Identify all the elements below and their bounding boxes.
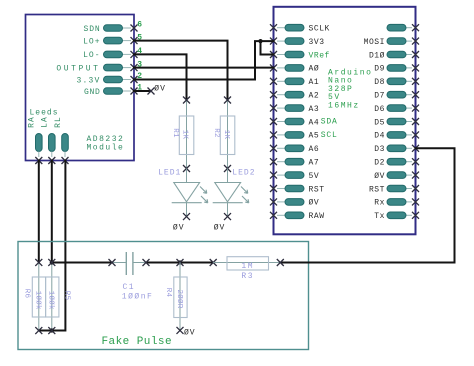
wire OUTPUT (pin3) to Arduino A0 [134, 67, 274, 69]
svg-text:R3: R3 [241, 272, 254, 281]
svg-text:ØV: ØV [309, 199, 320, 208]
svg-text:RST: RST [369, 185, 385, 194]
ground 0V at LED2 [224, 213, 231, 220]
Arduino left pin AØ [277, 67, 285, 69]
Arduino left pin RAW [277, 214, 285, 216]
svg-text:SCL: SCL [321, 131, 338, 140]
Arduino right pin D8 [406, 80, 412, 82]
svg-text:1K: 1K [222, 130, 230, 140]
svg-text:5V: 5V [309, 172, 320, 181]
wire C1 to R3 via R4 junction [146, 262, 213, 264]
Arduino right pin D9 [406, 67, 412, 69]
svg-text:D2: D2 [374, 159, 385, 168]
Arduino right pin D5 [406, 121, 412, 123]
svg-text:R4: R4 [164, 288, 172, 298]
svg-text:RA: RA [28, 116, 37, 128]
resistor R5 100k [51, 263, 53, 331]
node R6 bottom [35, 327, 42, 334]
Arduino right pin D6 [406, 107, 412, 109]
svg-text:RL: RL [54, 116, 63, 128]
svg-text:Module: Module [87, 144, 125, 153]
svg-text:ØV: ØV [184, 329, 196, 338]
svg-text:AØ: AØ [309, 65, 320, 74]
svg-text:16MHz: 16MHz [328, 102, 360, 111]
Arduino right pin D1Ø [406, 54, 412, 56]
svg-text:A7: A7 [309, 159, 320, 168]
junction R4 top [178, 260, 182, 264]
node R3 left [210, 259, 217, 266]
Arduino right pin D7 [406, 94, 412, 96]
svg-text:A3: A3 [309, 105, 320, 114]
node R1/LED1 [183, 165, 190, 172]
node R1 top [183, 97, 190, 104]
svg-text:LED1: LED1 [158, 168, 181, 177]
Arduino left pin ØV [277, 201, 285, 203]
ground 0V at R4 [177, 327, 184, 334]
ground 0V at LED1 [183, 213, 190, 220]
svg-text:A6: A6 [309, 145, 320, 154]
svg-text:GND: GND [84, 88, 101, 97]
Arduino left pin A6 [277, 147, 285, 149]
svg-text:A5: A5 [309, 132, 320, 141]
Arduino left pin A2 [277, 94, 285, 96]
svg-text:D1Ø: D1Ø [369, 51, 385, 60]
Arduino right pin ØV [406, 174, 412, 176]
AD8232 pin 2 3.3V [123, 79, 132, 81]
Arduino left pin RST [277, 188, 285, 190]
Arduino left pin A3 [277, 107, 285, 109]
node R6 top / RA [35, 259, 42, 266]
svg-text:Tx: Tx [374, 212, 385, 221]
svg-text:Leeds: Leeds [30, 109, 59, 118]
node C1 left [109, 259, 116, 266]
Arduino right pin Tx [406, 214, 412, 216]
svg-text:SCLK: SCLK [309, 25, 330, 34]
resistor R1 1K [186, 100, 188, 169]
AD8232 pin 6 SDN [123, 27, 132, 29]
junction R5 top / LA / net [50, 260, 54, 264]
Fake Pulse box [18, 242, 309, 350]
svg-text:A2: A2 [309, 92, 320, 101]
AD8232 pin 3 OUTPUT [123, 67, 132, 69]
wire R5 top to C1 [52, 262, 112, 264]
Arduino right pin D4 [406, 134, 412, 136]
svg-text:ØV: ØV [374, 172, 385, 181]
AD8232 module box [26, 15, 135, 161]
wire lead RL down to R6/R5 bottoms [39, 161, 66, 331]
wire branch to Arduino VRef [261, 41, 274, 54]
Arduino right pin D2 [406, 161, 412, 163]
Arduino right pin RST [406, 188, 412, 190]
svg-text:SDN: SDN [84, 25, 101, 34]
svg-text:RST: RST [309, 185, 325, 194]
svg-text:D8: D8 [374, 78, 385, 87]
svg-text:R1: R1 [171, 128, 179, 138]
capacitor C1 100nF [112, 262, 126, 264]
svg-text:1ØØk: 1ØØk [33, 291, 42, 310]
svg-text:R5: R5 [62, 291, 70, 301]
svg-text:3.3V: 3.3V [76, 76, 100, 85]
junction 3V3/VRef [258, 39, 262, 43]
svg-text:1K: 1K [181, 130, 189, 140]
Arduino Nano box [274, 7, 416, 235]
wire GND (pin1) to 0V [134, 90, 151, 92]
AD8232 pin 4 LO- [123, 53, 132, 55]
resistor R6 100k [38, 263, 40, 331]
Arduino left pin A5 [277, 134, 285, 136]
node R2/LED2 [224, 165, 231, 172]
svg-text:LO-: LO- [83, 51, 100, 60]
svg-text:RAW: RAW [309, 212, 325, 221]
svg-text:1ØØnF: 1ØØnF [122, 292, 154, 301]
svg-text:A4: A4 [309, 118, 320, 127]
svg-text:D5: D5 [374, 118, 385, 127]
svg-text:1M: 1M [241, 262, 254, 271]
svg-text:OUTPUT: OUTPUT [56, 64, 100, 73]
svg-text:R2: R2 [212, 128, 220, 138]
svg-text:ØV: ØV [173, 223, 185, 232]
svg-text:2ØØR: 2ØØR [175, 289, 184, 308]
Arduino left pin A4 [277, 121, 285, 123]
svg-text:VRef: VRef [309, 51, 330, 60]
resistor R2 1K [227, 100, 229, 169]
svg-text:C1: C1 [123, 283, 136, 292]
Arduino left pin VRef [277, 54, 285, 56]
svg-text:D6: D6 [374, 105, 385, 114]
svg-text:3V3: 3V3 [309, 38, 325, 47]
svg-text:LA: LA [41, 116, 50, 128]
svg-text:ØV: ØV [154, 85, 166, 94]
node C1 right [143, 259, 150, 266]
svg-text:LO+: LO+ [83, 37, 100, 46]
wire LO- (pin4) to R1 [134, 54, 187, 100]
Arduino left pin A1 [277, 80, 285, 82]
Arduino left pin 3V3 [277, 40, 285, 42]
svg-text:D7: D7 [374, 92, 385, 101]
svg-text:LED2: LED2 [232, 168, 255, 177]
svg-text:Fake Pulse: Fake Pulse [102, 336, 173, 348]
wire 3.3V (pin2) to Arduino 3V3 [134, 41, 274, 79]
Arduino left pin A7 [277, 161, 285, 163]
junction R5 bottom [50, 328, 54, 332]
svg-text:ØV: ØV [214, 223, 226, 232]
Arduino left pin SCLK [277, 27, 285, 29]
svg-text:D4: D4 [374, 132, 385, 141]
ground 0V at AD8232 GND [148, 88, 155, 95]
svg-text:R6: R6 [23, 289, 31, 299]
wire lead RA down to R6 [38, 161, 40, 263]
svg-text:D9: D9 [374, 65, 385, 74]
svg-text:1ØØk: 1ØØk [47, 291, 56, 310]
wire LO+ (pin5) to R2 [134, 41, 228, 100]
Arduino left pin 5V [277, 174, 285, 176]
svg-text:D3: D3 [374, 145, 385, 154]
node R3 right [277, 259, 284, 266]
AD8232 pin 1 GND [123, 90, 132, 92]
Arduino right pin Rx [406, 201, 412, 203]
svg-text:SDA: SDA [321, 118, 338, 127]
node R2 top [224, 97, 231, 104]
Arduino right pin n/c [406, 27, 412, 29]
wire R3 to Arduino D3 [280, 148, 454, 262]
svg-text:A1: A1 [309, 78, 320, 87]
AD8232 pin 5 LO+ [123, 40, 132, 42]
svg-text:6: 6 [137, 21, 142, 30]
svg-text:MOSI: MOSI [364, 38, 385, 47]
Arduino right pin MOSI [406, 40, 412, 42]
svg-text:Rx: Rx [374, 199, 385, 208]
wire lead LA down to R5 [51, 161, 53, 263]
Arduino right pin D3 [406, 147, 412, 149]
